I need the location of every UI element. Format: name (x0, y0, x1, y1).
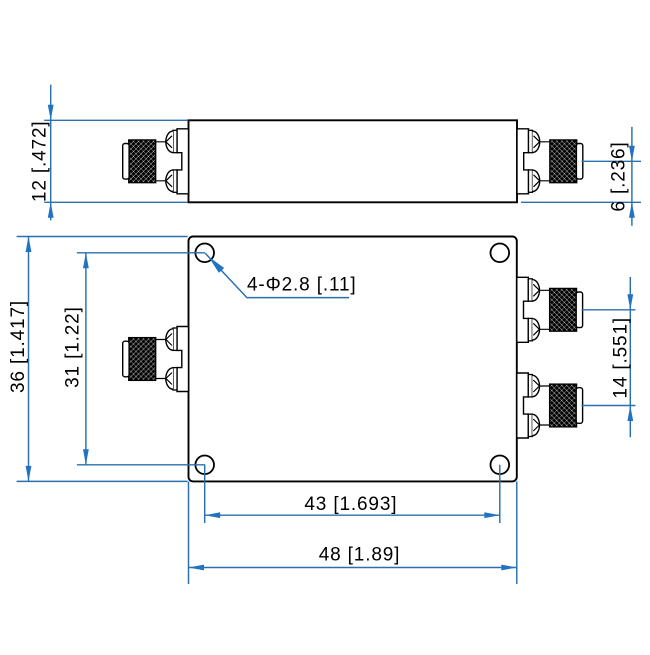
svg-text:36 [1.417]: 36 [1.417] (8, 300, 29, 393)
body side view (189, 120, 518, 202)
housing top view (189, 237, 517, 482)
dimension 36 [1.417] (17, 237, 188, 482)
dimension 6 [.236] (521, 127, 641, 226)
svg-text:31 [1.22]: 31 [1.22] (63, 306, 84, 388)
svg-text:4-Φ2.8 [.11]: 4-Φ2.8 [.11] (247, 275, 357, 296)
svg-text:14 [.551]: 14 [.551] (610, 317, 631, 399)
dimension 43 [1.693] (205, 465, 500, 523)
connector J1 side view (left) (123, 129, 189, 194)
leader 4-PHI2.8 [.11] (205, 253, 349, 297)
dimension 14 [.551] (582, 277, 636, 437)
hole top-right (491, 244, 510, 263)
svg-text:48 [1.89]: 48 [1.89] (319, 544, 401, 565)
connector J1 top view (left input) (123, 327, 189, 392)
connector J2 side view (right) (517, 129, 583, 194)
dimension 31 [1.22] (77, 253, 205, 465)
hole bottom-right (491, 456, 510, 475)
dimension 48 [1.89] (189, 482, 517, 585)
svg-text:6 [.236]: 6 [.236] (609, 141, 630, 211)
connector J3 top view (right output 2) (517, 373, 583, 438)
connector J2 top view (right output 1) (517, 277, 583, 342)
hole bottom-left (195, 456, 214, 475)
dimension 12 [.472] (44, 85, 187, 221)
svg-text:43 [1.693]: 43 [1.693] (304, 494, 397, 515)
hole top-left (195, 244, 214, 263)
svg-text:12 [.472]: 12 [.472] (29, 120, 50, 202)
